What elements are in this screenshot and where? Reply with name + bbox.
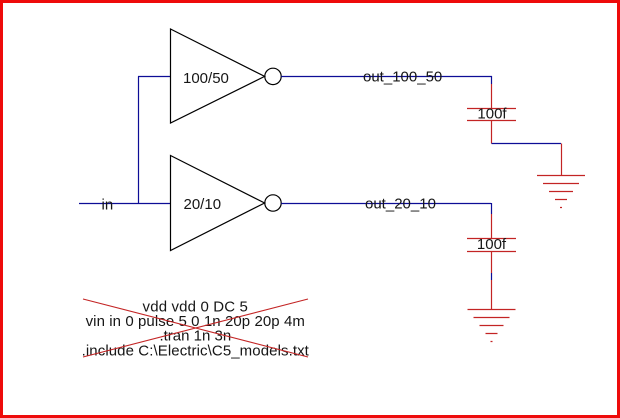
wire: in horizontal (79, 203, 170, 205)
inverter U2 output bubble (265, 195, 281, 211)
wire: out_20_10 horizontal (281, 203, 491, 205)
ground GND2 symbol (468, 310, 516, 342)
svg-text:in: in (102, 197, 114, 214)
svg-text:20/10: 20/10 (184, 196, 222, 213)
svg-text:.include C:\Electric\C5_models: .include C:\Electric\C5_models.txt (82, 342, 310, 359)
capacitor C2 top lead (491, 214, 493, 239)
capacitor C1 top lead (491, 84, 493, 109)
svg-text:out_100_50: out_100_50 (363, 69, 442, 86)
wire: out_100_50 horizontal (281, 76, 492, 78)
inverter U2 triangle (171, 156, 265, 251)
svg-text:100f: 100f (477, 236, 507, 253)
wire: blue stub on ground GND2 stem (491, 273, 493, 280)
capacitor C2 plates (467, 239, 516, 252)
svg-text:100/50: 100/50 (183, 70, 229, 87)
wire: connector to ground GND1 (492, 143, 562, 145)
capacitor C2 bottom lead (491, 252, 493, 274)
red X cross over spice deck (83, 299, 308, 357)
ground GND1 stem (561, 144, 563, 176)
svg-text:100f: 100f (477, 106, 507, 123)
inverter U1 triangle (171, 29, 265, 123)
wire: blue stub down to capacitor C1 (491, 76, 493, 84)
wire: vertical branch joining both inverter inputs (138, 77, 140, 204)
capacitor C1 bottom lead (491, 121, 493, 144)
wire: blue stub down to capacitor C2 (491, 203, 493, 214)
ground GND1 symbol (537, 176, 585, 208)
svg-text:out_20_10: out_20_10 (365, 196, 436, 213)
inverter U1 output bubble (265, 68, 281, 84)
capacitor C1 plates (467, 109, 516, 121)
wire: top inverter input (138, 76, 170, 78)
ground GND2 stem (491, 280, 493, 310)
